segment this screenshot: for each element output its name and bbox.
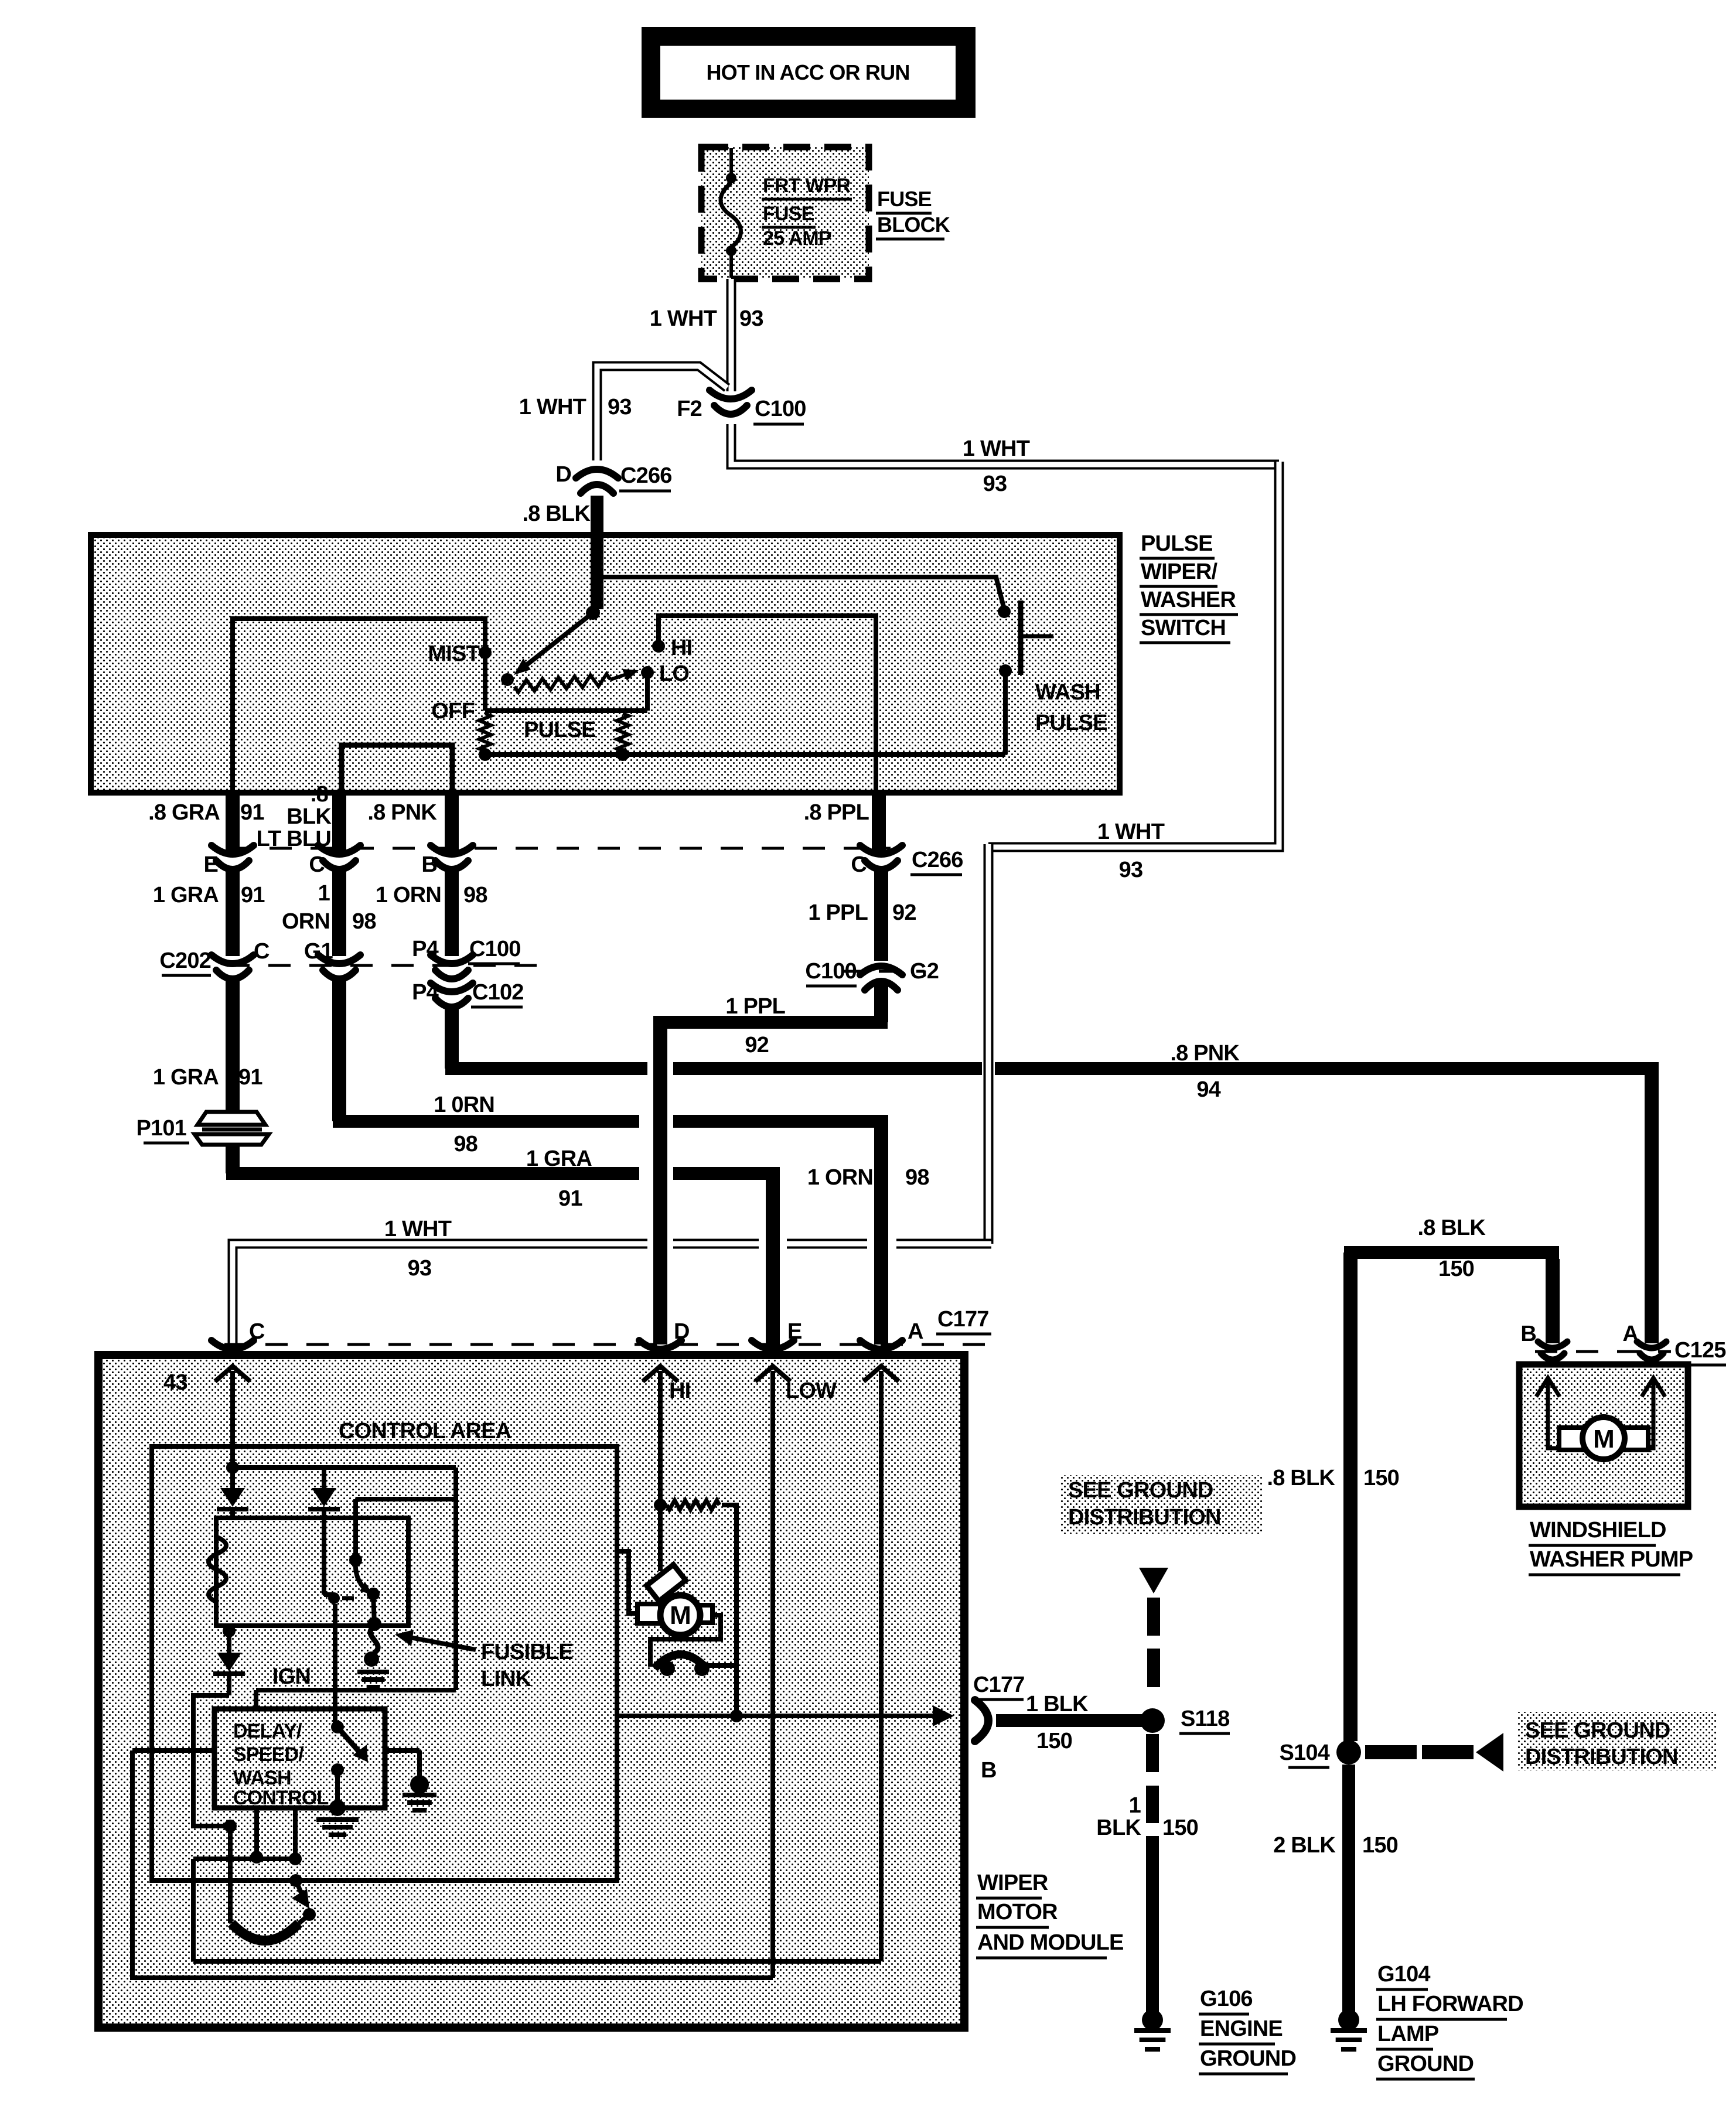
svg-text:C125: C125 <box>1674 1338 1726 1363</box>
svg-text:GROUND: GROUND <box>1377 2052 1474 2076</box>
wire 1 WHT 93 from fuse to C100 F2 <box>727 279 736 391</box>
connector row C266 (dashed) <box>228 847 891 850</box>
svg-text:150: 150 <box>1162 1815 1198 1840</box>
svg-text:PULSE: PULSE <box>524 718 596 742</box>
wire .8 BLK LT BLU terminal C <box>332 790 346 851</box>
wire 1 WHT 93 to wiper module C <box>896 1239 991 1249</box>
svg-text:GROUND: GROUND <box>1200 2046 1296 2071</box>
svg-text:G2: G2 <box>910 959 939 984</box>
wire 1 ORN 98 (from C) <box>332 868 346 956</box>
svg-text:WASH: WASH <box>1035 680 1100 705</box>
connector D C266 <box>576 469 618 478</box>
delay/speed/wash control module <box>214 1709 385 1808</box>
svg-text:1 WHT: 1 WHT <box>963 436 1030 461</box>
svg-text:C: C <box>309 852 325 877</box>
connector row C177 (dashed) <box>224 1343 990 1346</box>
svg-text:ENGINE: ENGINE <box>1200 2016 1283 2041</box>
fuse FRT WPR 25A <box>729 148 733 173</box>
connector C266 B <box>431 845 473 854</box>
relay coil box <box>216 1518 408 1626</box>
svg-text:A: A <box>1622 1322 1638 1346</box>
svg-text:98: 98 <box>463 883 487 907</box>
wiper motor and module box <box>98 1355 964 2028</box>
svg-text:P4: P4 <box>412 937 439 961</box>
svg-text:CONTROL: CONTROL <box>233 1787 329 1809</box>
svg-text:1: 1 <box>1129 1793 1141 1818</box>
connector row 2 dashes <box>227 964 548 967</box>
svg-text:P4: P4 <box>412 980 439 1005</box>
svg-text:43: 43 <box>163 1370 187 1395</box>
svg-text:94: 94 <box>1196 1077 1220 1102</box>
svg-text:FUSIBLE: FUSIBLE <box>481 1640 573 1664</box>
switch pivot node <box>586 606 600 620</box>
wire C into control area <box>230 1371 235 1468</box>
svg-text:150: 150 <box>1362 1833 1398 1858</box>
svg-text:LINK: LINK <box>481 1667 532 1691</box>
svg-text:FRT WPR: FRT WPR <box>763 175 851 197</box>
svg-text:150: 150 <box>1036 1729 1072 1753</box>
wash control switch arm <box>331 1721 344 1733</box>
switch bottom rail <box>485 752 1005 757</box>
wire D HI to motor <box>658 1371 663 1571</box>
svg-text:C: C <box>249 1319 265 1344</box>
svg-text:S104: S104 <box>1279 1741 1329 1765</box>
svg-text:PULSE: PULSE <box>1141 531 1213 556</box>
resistor PULSE right <box>617 714 629 751</box>
control area box <box>152 1446 617 1881</box>
wire pivot to wash switch <box>593 577 1004 613</box>
svg-text:.8 PNK: .8 PNK <box>367 800 437 825</box>
ground (wash control) <box>316 1817 359 1822</box>
svg-text:DISTRIBUTION: DISTRIBUTION <box>1068 1505 1221 1530</box>
module output rail to B <box>617 1714 937 1718</box>
svg-text:93: 93 <box>1119 858 1143 882</box>
relay armature <box>353 1499 358 1560</box>
svg-text:1 WHT: 1 WHT <box>650 306 717 331</box>
input arrow C <box>215 1366 250 1381</box>
dashed ground lead above S118 <box>1147 1598 1160 1636</box>
contact MIST <box>479 646 492 659</box>
connector C177 B exit <box>975 1700 988 1741</box>
wire 1 ORN 98 rail to module A <box>332 977 346 1121</box>
wire 1 ORN 98 (from B) <box>445 868 459 956</box>
svg-text:1 WHT: 1 WHT <box>519 395 586 419</box>
connector C100 P4 <box>431 955 473 964</box>
svg-text:1 GRA: 1 GRA <box>526 1146 592 1171</box>
svg-text:1 BLK: 1 BLK <box>1026 1692 1089 1716</box>
connector C202 C <box>212 955 254 964</box>
svg-text:92: 92 <box>745 1033 769 1057</box>
svg-text:C100: C100 <box>805 959 857 984</box>
connector C100 G2 <box>860 966 902 975</box>
svg-text:A: A <box>908 1319 923 1344</box>
svg-text:E: E <box>203 852 218 877</box>
svg-text:CONTROL AREA: CONTROL AREA <box>339 1419 511 1443</box>
switch arm to MIST/OFF <box>519 613 593 671</box>
connector C125 B <box>1538 1342 1567 1348</box>
connector row C125 (dashed) <box>1535 1350 1671 1353</box>
svg-text:1: 1 <box>318 881 330 906</box>
wire 1 WHT 93 from C100 to right side <box>731 424 1279 465</box>
svg-text:BLK: BLK <box>287 804 332 829</box>
wire .8 PPL terminal C <box>872 790 886 851</box>
washer pump motor <box>1546 1378 1550 1434</box>
svg-text:.8 BLK: .8 BLK <box>1417 1216 1486 1240</box>
wire .8 PNK 94 rail to washer pump <box>445 1004 459 1069</box>
dashed lead to ground distribution <box>1365 1745 1417 1759</box>
svg-text:SWITCH: SWITCH <box>1141 616 1226 640</box>
svg-text:92: 92 <box>892 900 916 925</box>
svg-text:91: 91 <box>240 800 264 825</box>
svg-text:93: 93 <box>608 395 632 419</box>
connector C177 D <box>639 1340 681 1349</box>
svg-text:HI: HI <box>669 1378 690 1403</box>
svg-text:FUSE: FUSE <box>763 203 814 225</box>
svg-text:93: 93 <box>739 306 763 331</box>
svg-text:G106: G106 <box>1200 1987 1253 2011</box>
svg-text:1 WHT: 1 WHT <box>384 1217 452 1241</box>
wire 1 GRA 91 <box>226 868 240 956</box>
svg-text:1 WHT: 1 WHT <box>1097 820 1165 844</box>
wire 1 WHT 93 right vertical and return <box>988 462 1279 847</box>
connector C266 C (ppl) <box>860 845 902 854</box>
svg-text:HOT IN ACC OR RUN: HOT IN ACC OR RUN <box>706 60 909 84</box>
ground (fusible link) <box>357 1670 389 1674</box>
svg-text:25 AMP: 25 AMP <box>763 227 831 250</box>
wire 1 PPL 92 rail to module D <box>874 982 888 1022</box>
resistor PULSE left <box>479 714 491 751</box>
svg-text:PULSE: PULSE <box>1035 711 1107 735</box>
svg-text:91: 91 <box>241 883 265 907</box>
svg-text:B: B <box>981 1758 997 1783</box>
svg-text:C: C <box>851 852 867 877</box>
svg-text:93: 93 <box>408 1256 432 1281</box>
wire .8 BLK inside switch <box>591 535 603 609</box>
svg-text:E: E <box>787 1319 802 1344</box>
wire 1 GRA to P101 <box>226 977 240 1110</box>
loop terminal C to B <box>342 745 452 791</box>
connector C266 C <box>318 845 360 854</box>
wire 1 BLK 150 below S118 <box>1146 1734 1159 1772</box>
svg-text:1 ORN: 1 ORN <box>807 1165 873 1190</box>
diode 1 <box>230 1468 235 1488</box>
connector C177 E <box>752 1340 794 1349</box>
svg-text:SEE GROUND: SEE GROUND <box>1068 1478 1213 1503</box>
svg-text:1 GRA: 1 GRA <box>153 883 219 907</box>
park switch arm <box>289 1874 302 1887</box>
ground G106 <box>1142 2009 1163 2030</box>
svg-text:93: 93 <box>983 472 1007 496</box>
svg-text:98: 98 <box>905 1165 929 1190</box>
svg-text:C177: C177 <box>973 1673 1025 1697</box>
wire 2 BLK 150 below S104 <box>1342 1765 1355 2019</box>
svg-text:SEE GROUND: SEE GROUND <box>1525 1718 1670 1743</box>
svg-text:D: D <box>674 1319 690 1344</box>
svg-text:150: 150 <box>1438 1257 1474 1281</box>
connector C125 A <box>1637 1342 1666 1348</box>
svg-text:WASHER PUMP: WASHER PUMP <box>1530 1547 1693 1572</box>
wire .8 GRA 91 terminal E <box>226 790 240 851</box>
svg-text:WIPER: WIPER <box>977 1871 1048 1895</box>
park contact arc <box>231 1923 299 1941</box>
svg-text:G1: G1 <box>304 939 333 964</box>
svg-text:M: M <box>670 1601 691 1630</box>
connector F2 C100 <box>710 390 752 399</box>
svg-text:91: 91 <box>558 1186 582 1211</box>
svg-text:150: 150 <box>1363 1466 1399 1490</box>
pulse wiper/washer switch box <box>91 535 1120 793</box>
svg-text:1 GRA: 1 GRA <box>153 1065 219 1090</box>
fusible link <box>370 1626 378 1653</box>
module output to ground right <box>385 1748 419 1753</box>
svg-text:G104: G104 <box>1377 1962 1430 1987</box>
svg-text:1 0RN: 1 0RN <box>434 1093 494 1117</box>
svg-text:91: 91 <box>238 1065 262 1090</box>
motor feed from control area <box>617 1551 637 1613</box>
wires under delay module <box>254 1808 259 1857</box>
svg-text:C177: C177 <box>937 1307 989 1332</box>
svg-text:DELAY/: DELAY/ <box>233 1720 302 1742</box>
wire A return <box>193 1959 881 1964</box>
svg-text:B: B <box>1520 1322 1536 1346</box>
connector C177 A <box>860 1340 902 1349</box>
svg-text:2 BLK: 2 BLK <box>1273 1833 1336 1858</box>
svg-text:WASH: WASH <box>233 1767 291 1789</box>
svg-text:DISTRIBUTION: DISTRIBUTION <box>1525 1745 1678 1769</box>
ground distribution arrow (up) <box>1139 1568 1168 1593</box>
wire 1 GRA 91 rail to module E <box>226 1146 240 1173</box>
wire branch 1 WHT 93 to C266 D <box>597 366 727 460</box>
svg-text:LO: LO <box>659 661 689 686</box>
connector P101 grommet <box>197 1112 265 1125</box>
svg-text:BLOCK: BLOCK <box>877 213 950 237</box>
svg-text:LH FORWARD: LH FORWARD <box>1377 1992 1523 2016</box>
diode 3 and IGN feed <box>223 1625 236 1637</box>
svg-text:1 PPL: 1 PPL <box>725 994 785 1019</box>
splice S104 <box>1336 1740 1361 1765</box>
svg-text:AND MODULE: AND MODULE <box>977 1930 1124 1955</box>
svg-text:WIPER/: WIPER/ <box>1141 559 1218 584</box>
svg-text:S118: S118 <box>1181 1707 1229 1731</box>
svg-text:B: B <box>421 852 437 877</box>
label SEE GROUND DISTRIBUTION (lower) <box>1517 1712 1717 1770</box>
svg-text:1 ORN: 1 ORN <box>376 883 441 907</box>
connector C177 C <box>212 1340 254 1349</box>
contact HI <box>652 640 665 653</box>
wire 1 BLK 150 to S118 <box>996 1714 1147 1727</box>
svg-text:C202: C202 <box>159 948 211 973</box>
fuse block (dashed) <box>701 147 869 279</box>
resistor (hi speed) <box>667 1500 719 1510</box>
svg-text:.8 BLK: .8 BLK <box>1267 1466 1335 1490</box>
svg-text:HI: HI <box>671 636 692 660</box>
svg-text:MIST: MIST <box>428 641 479 666</box>
svg-text:.8 BLK: .8 BLK <box>522 501 591 526</box>
svg-text:M: M <box>1593 1425 1614 1453</box>
input arrow A <box>864 1366 899 1381</box>
wire LOW return <box>132 1748 214 1753</box>
relay fixed contact <box>324 1592 333 1597</box>
svg-text:C266: C266 <box>620 463 672 488</box>
svg-text:P101: P101 <box>136 1116 186 1141</box>
wire MIST to terminal E <box>233 619 485 791</box>
wire 1 PPL 92 <box>874 868 888 961</box>
wire .8 PNK terminal B <box>445 790 459 851</box>
wire IGN <box>256 1688 456 1692</box>
svg-text:C100: C100 <box>755 397 806 421</box>
svg-text:.8 PPL: .8 PPL <box>804 800 869 825</box>
svg-text:F2: F2 <box>677 397 702 421</box>
input arrow D <box>643 1366 678 1381</box>
svg-text:C: C <box>254 939 270 964</box>
svg-text:ORN: ORN <box>282 909 330 934</box>
wiper motor M <box>647 1565 686 1602</box>
svg-text:C100: C100 <box>469 937 521 961</box>
ground (module right) <box>410 1775 429 1794</box>
svg-text:BLK: BLK <box>1096 1815 1141 1840</box>
svg-text:98: 98 <box>453 1132 478 1156</box>
svg-text:98: 98 <box>352 909 376 934</box>
svg-text:C102: C102 <box>472 980 524 1005</box>
svg-text:.8 GRA: .8 GRA <box>148 800 220 825</box>
svg-text:OFF: OFF <box>431 699 475 724</box>
svg-text:WINDSHIELD: WINDSHIELD <box>1530 1518 1666 1542</box>
svg-text:SPEED/: SPEED/ <box>233 1743 304 1766</box>
svg-text:IGN: IGN <box>272 1664 311 1689</box>
svg-text:1 PPL: 1 PPL <box>808 900 868 925</box>
motor to commutator <box>650 1615 721 1667</box>
ground G104 <box>1338 2009 1359 2030</box>
pulse delay potentiometer <box>514 674 611 692</box>
svg-text:.8 PNK: .8 PNK <box>1170 1041 1240 1066</box>
svg-text:C266: C266 <box>912 848 963 872</box>
label SEE GROUND DISTRIBUTION (upper) <box>1060 1475 1263 1534</box>
svg-text:.8: .8 <box>311 782 328 807</box>
splice S118 <box>1140 1708 1165 1733</box>
svg-text:D: D <box>555 462 571 487</box>
power label box HOT IN ACC OR RUN <box>642 27 976 118</box>
connector C266 E <box>212 845 254 854</box>
windshield washer pump box <box>1519 1364 1688 1507</box>
svg-text:FUSE: FUSE <box>877 187 932 211</box>
contact LO <box>641 666 654 679</box>
connector C102 P4 <box>431 983 473 992</box>
svg-text:MOTOR: MOTOR <box>977 1900 1058 1924</box>
svg-text:WASHER: WASHER <box>1141 588 1236 612</box>
connector G1 <box>318 955 360 964</box>
wash pulse switch <box>998 605 1011 618</box>
svg-text:LAMP: LAMP <box>1377 2022 1439 2046</box>
wire .8 BLK 150 from washer pump <box>1546 1259 1560 1343</box>
diode 2 <box>322 1468 326 1488</box>
svg-text:LOW: LOW <box>786 1378 837 1403</box>
input arrow E <box>755 1366 790 1381</box>
